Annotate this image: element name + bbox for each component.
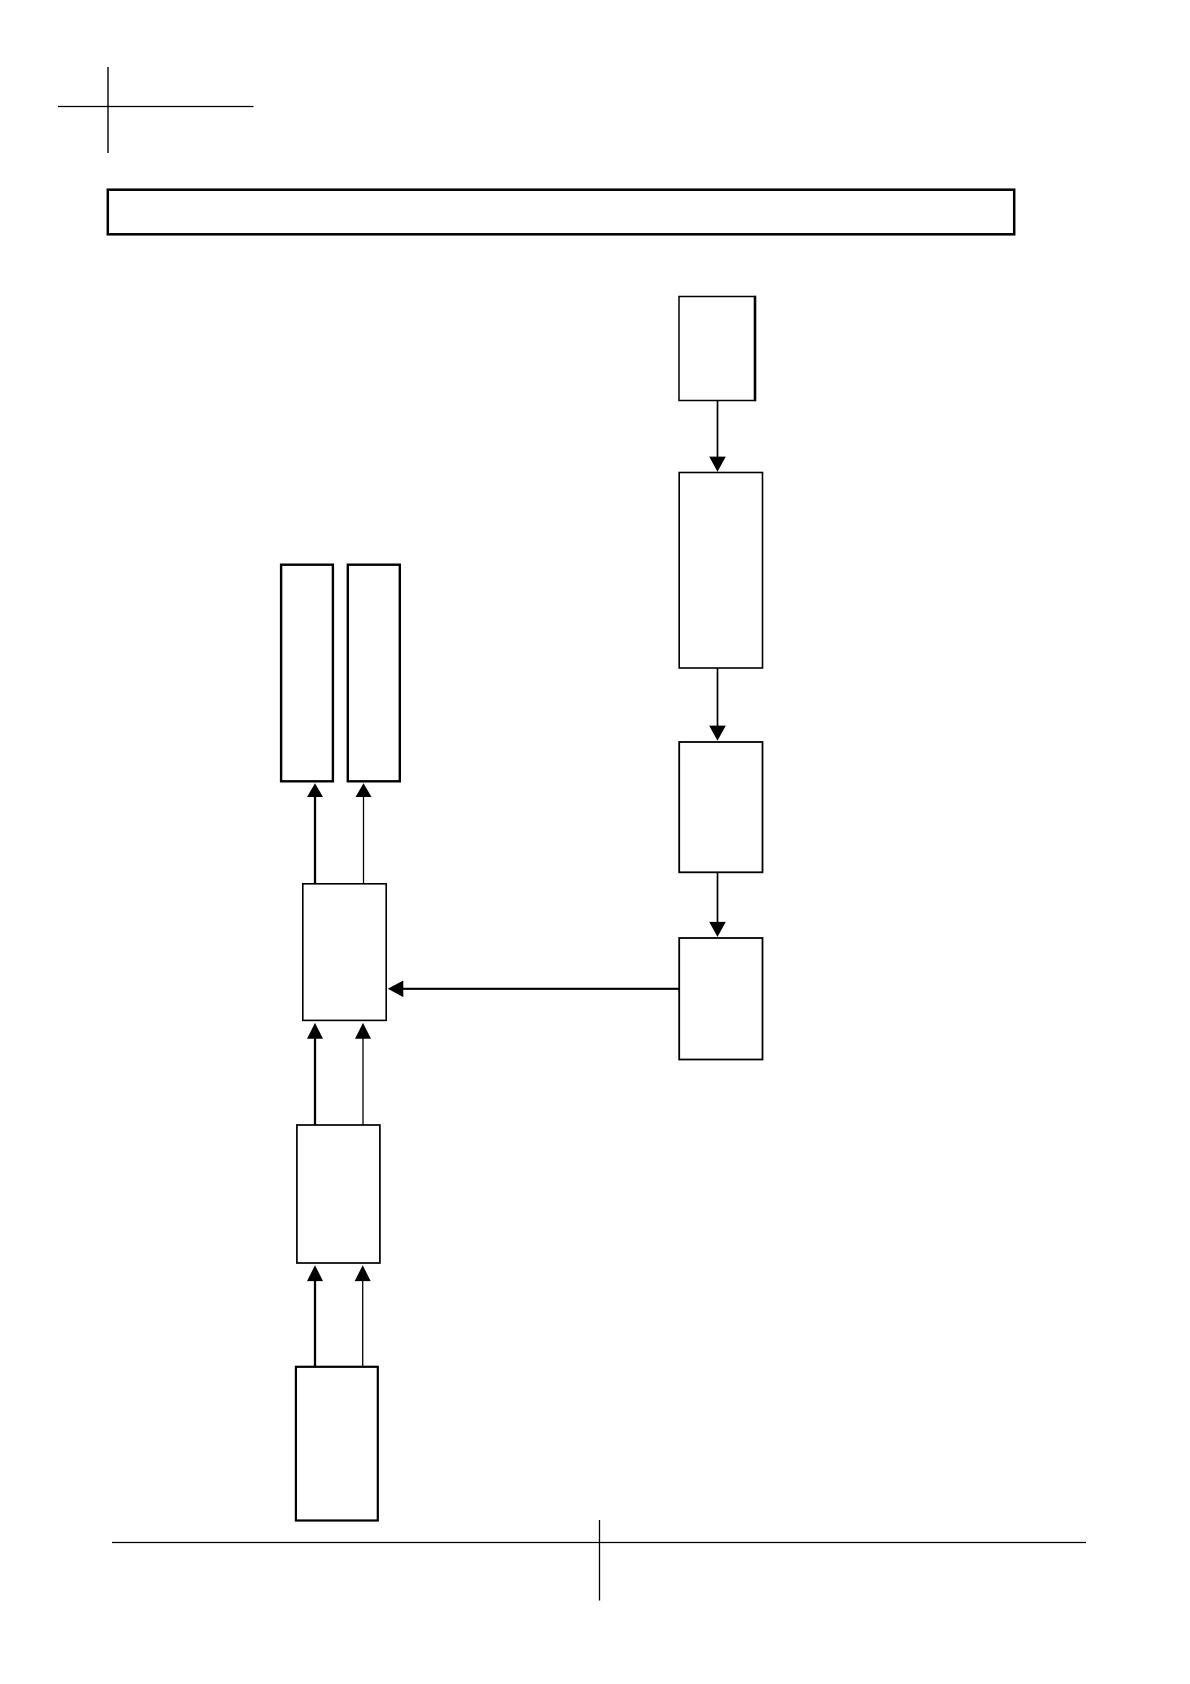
title bar rectangle xyxy=(108,190,1014,235)
box D (middle column) xyxy=(297,1125,380,1263)
thin arrow E to D xyxy=(362,1281,364,1367)
thin arrow D to C xyxy=(362,1038,364,1124)
box R4 (bottom of right column) xyxy=(679,938,762,1060)
bottom rule xyxy=(112,1542,1086,1544)
thick arrow D to C xyxy=(314,1038,316,1124)
box R3 (right column) xyxy=(679,742,762,872)
tall box A (middle column, left) xyxy=(281,565,333,782)
box R1 (top of right column) xyxy=(679,297,755,401)
crop mark vertical line (top-left) xyxy=(107,67,109,153)
box R1 thick right edge xyxy=(754,296,757,401)
thick arrow C to A xyxy=(314,797,316,884)
wire arrow R1 to R2 xyxy=(717,401,719,458)
thick arrow E to D xyxy=(314,1281,316,1367)
wire arrow R2 to R3 xyxy=(717,668,719,727)
wire arrow R3 to R4 xyxy=(717,873,719,923)
box E (bottom of middle column) xyxy=(296,1367,378,1521)
tall box B (middle column, right) xyxy=(348,565,400,782)
box R2 (tall box, right column) xyxy=(679,473,762,669)
crop mark horizontal line (top-left) xyxy=(58,106,254,108)
bottom center tick xyxy=(599,1520,601,1601)
wire horizontal arrow R4 to box C xyxy=(403,988,680,990)
thin arrow C to B xyxy=(363,797,365,884)
box C (middle column) xyxy=(303,884,386,1021)
